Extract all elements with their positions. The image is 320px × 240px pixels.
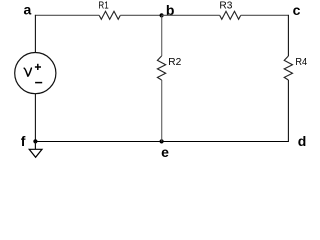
svg-text:f: f — [21, 133, 26, 149]
wire f to e (bottom horizontal) — [35, 141, 161, 143]
resistor R4 — [284, 56, 292, 80]
wire b to R3 (top horizontal) — [162, 14, 220, 16]
voltage source plus sign — [35, 64, 41, 70]
wire R4 to d (right vertical lower) — [287, 80, 289, 142]
wire R1 to b (top horizontal) — [120, 14, 161, 16]
voltage source minus sign — [35, 82, 42, 84]
svg-text:a: a — [24, 2, 32, 18]
svg-text:R2: R2 — [168, 57, 181, 68]
wire a to R1 (top left horizontal) — [35, 14, 99, 16]
voltage source V1 circle — [15, 53, 56, 94]
ground symbol — [29, 149, 42, 157]
junction dot node f — [33, 139, 37, 143]
wire R3 to c (top right horizontal) — [241, 14, 289, 16]
wire b to R2 (middle vertical upper) — [161, 15, 163, 56]
svg-text:R4: R4 — [295, 57, 307, 68]
svg-text:e: e — [161, 144, 169, 160]
junction dot node b — [160, 13, 164, 17]
wire R2 to e (middle vertical lower) — [161, 80, 163, 142]
wire e to d (bottom horizontal) — [162, 141, 289, 143]
ground stub wire — [34, 142, 36, 150]
svg-text:c: c — [293, 2, 301, 18]
wire V1 to f (left vertical lower) — [34, 94, 36, 142]
wire a to V1 (left vertical upper) — [34, 15, 36, 53]
svg-text:R3: R3 — [219, 1, 232, 12]
wire c to R4 (right vertical upper) — [287, 15, 289, 56]
resistor R1 — [99, 11, 120, 19]
resistor R3 — [220, 11, 241, 19]
svg-text:d: d — [298, 133, 307, 149]
svg-text:R1: R1 — [98, 1, 109, 12]
resistor R2 — [157, 56, 165, 80]
junction dot node e — [160, 139, 164, 143]
voltage source label v — [24, 68, 31, 76]
